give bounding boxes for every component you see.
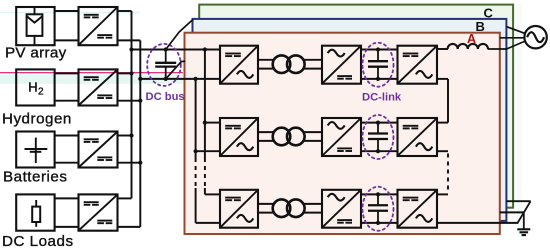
rail internal negative xyxy=(195,79,197,223)
wire row1 converter to transformer xyxy=(258,60,275,69)
svg-text:DC bus: DC bus xyxy=(146,91,185,103)
wire PV to converter bottom xyxy=(55,39,79,41)
wire row1 dc link bottom xyxy=(361,78,398,80)
transformer row2 xyxy=(273,128,305,146)
AC grid source xyxy=(524,26,546,48)
capacitor DC-link row2 xyxy=(368,121,388,154)
converter row1 AC/DC xyxy=(322,46,361,84)
capacitor DC-link row1 xyxy=(368,47,388,81)
wire phase A output xyxy=(437,48,448,50)
Batteries source box xyxy=(16,132,54,168)
wire row2 converter to transformer xyxy=(258,132,275,141)
wire row1 transformer to converter xyxy=(304,60,323,69)
wire row1 dc link top xyxy=(361,49,398,51)
svg-text:DC-link: DC-link xyxy=(362,91,402,103)
converter row2 DC/AC input xyxy=(220,118,258,156)
rail internal positive xyxy=(204,50,206,195)
svg-text:H: H xyxy=(28,80,37,95)
wire H2 to converter top xyxy=(55,72,79,74)
svg-text:Hydrogen: Hydrogen xyxy=(2,111,72,128)
wire battery to converter bottom xyxy=(55,162,79,164)
svg-text:B: B xyxy=(476,19,485,34)
wire PV to converter top xyxy=(55,10,79,12)
wire row2 dc link bottom xyxy=(361,150,398,152)
converter row1 DC/AC output xyxy=(398,46,438,84)
capacitor DC-link row3 xyxy=(368,192,388,225)
junction dots internal rails xyxy=(194,47,207,153)
converter PV DC/DC U1 xyxy=(79,7,118,45)
svg-text:DC Loads: DC Loads xyxy=(2,233,74,250)
wire DC bus negative xyxy=(140,78,220,80)
DC bus dashed highlight circle xyxy=(147,44,181,86)
phase box B xyxy=(193,19,507,221)
wire H2 to converter bottom xyxy=(55,100,79,102)
wire row3 dc link bottom xyxy=(361,222,398,224)
wire diagonal feed to phase C xyxy=(166,61,186,79)
wire load to converter top xyxy=(55,197,79,199)
wire row3 converter to transformer xyxy=(258,204,275,213)
wire series row1 to row2 xyxy=(437,79,448,123)
converter row3 DC/AC output xyxy=(398,190,438,228)
DC-link dashed highlight row1 xyxy=(363,43,394,87)
wire neutral phase C xyxy=(506,200,530,202)
converter H2 DC/DC U2 xyxy=(79,69,118,105)
wire row2 transformer to converter xyxy=(304,132,323,141)
capacitor DC bus xyxy=(155,47,176,81)
wire battery to converter top xyxy=(55,135,79,137)
DC-link dashed highlight row3 xyxy=(363,187,394,231)
wire neutral phase A xyxy=(437,222,518,224)
transformer row1 xyxy=(273,55,305,73)
rail positive bus xyxy=(131,11,133,198)
converter load DC/DC U4 xyxy=(79,194,118,230)
DC-link dashed highlight row2 xyxy=(363,115,394,159)
converter row3 AC/DC xyxy=(322,190,361,228)
wire row2 input bottom xyxy=(196,150,220,152)
wire load to converter bottom xyxy=(55,226,79,228)
converter row2 AC/DC xyxy=(322,118,361,156)
wire row3 input bottom xyxy=(196,222,220,224)
svg-text:Batteries: Batteries xyxy=(3,169,67,186)
Hydrogen source box H2 xyxy=(16,69,54,105)
wire series row2 to row3 dashed xyxy=(437,151,448,194)
converter battery DC/DC U3 xyxy=(79,132,118,168)
converter row3 DC/AC input xyxy=(220,190,258,228)
wire row2 dc link top xyxy=(361,122,398,124)
wire row3 input top xyxy=(205,193,220,195)
phase box A xyxy=(185,33,500,234)
wire converter outputs to rails xyxy=(118,11,141,227)
wire phase C to grid xyxy=(506,27,525,34)
wire neutral phase B xyxy=(500,211,524,213)
wire DC bus positive xyxy=(132,49,221,51)
wire diagonal feed to phase B xyxy=(166,20,193,50)
converter row2 DC/AC output xyxy=(398,118,438,156)
wire row2 input top xyxy=(205,122,220,124)
DC Loads source box xyxy=(16,194,54,230)
rail negative bus xyxy=(139,40,141,227)
wire phase A to grid xyxy=(488,41,526,49)
wire row3 transformer to converter xyxy=(304,204,323,213)
junction dots rails xyxy=(129,47,142,164)
phase box C xyxy=(199,5,513,208)
wire phase B to grid xyxy=(500,37,525,39)
svg-text:PV array: PV array xyxy=(5,45,67,62)
ground xyxy=(517,212,530,235)
svg-text:2: 2 xyxy=(38,87,44,98)
transformer row3 xyxy=(273,199,305,217)
neutral collector slant wire xyxy=(517,201,530,223)
wire row3 dc link top xyxy=(361,193,398,195)
PV array source box xyxy=(16,7,54,45)
converter row1 DC/AC input xyxy=(220,46,258,84)
inductor filter coil xyxy=(448,44,488,49)
